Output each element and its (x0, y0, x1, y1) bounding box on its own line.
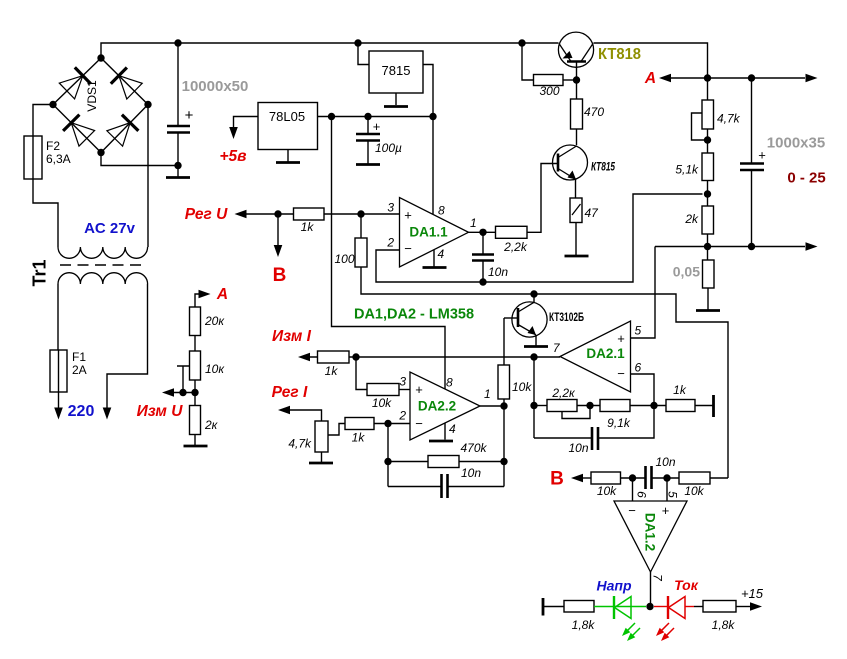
IC 78L05 box (258, 103, 318, 150)
diode VDS1 bottom-left (- bottom node to AC left node) (71, 123, 94, 146)
wire output column down (503, 406, 505, 487)
wire transformer primary left to fuse F1 (57, 284, 59, 350)
junction bridge right node (144, 101, 151, 108)
junction output column / R23 (500, 458, 507, 465)
svg-text:B: B (550, 469, 564, 490)
ground symbol DA1.1 pin 4 (423, 266, 447, 269)
svg-text:+: + (758, 148, 766, 163)
svg-text:Рег I: Рег I (272, 384, 308, 401)
resistor R18 2,2к (trimmer) (547, 400, 577, 412)
wire KT818 base junction to R3 470 (576, 80, 578, 99)
svg-text:+: + (415, 382, 423, 397)
junction bridge bottom node (97, 149, 104, 156)
svg-text:2: 2 (386, 236, 394, 250)
transformer Tr1 core (dashed) (60, 264, 146, 266)
wire DA2.2 pin 4 to ground (444, 423, 446, 440)
svg-text:9,1k: 9,1k (607, 416, 631, 430)
capacitor C4 1000x35 plates (740, 162, 764, 165)
svg-text:B: B (273, 265, 287, 286)
wire divider A tap (195, 294, 199, 307)
op-amp DA1.1 triangle (400, 198, 469, 268)
junction output column / R18 row (530, 402, 537, 409)
arrow node B (bottom) (571, 474, 583, 483)
svg-text:0,05: 0,05 (673, 264, 700, 280)
svg-text:Ток: Ток (674, 577, 699, 593)
svg-text:2,2к: 2,2к (551, 386, 576, 400)
wire DA1.1 output pin 1 (469, 231, 496, 233)
arrow +5v output (229, 127, 238, 139)
resistor R9 5,1k (vertical) (702, 153, 714, 181)
fuse F1 (50, 350, 67, 392)
svg-text:+15: +15 (741, 586, 764, 601)
wire +15 rail to capacitor C2 100u (367, 117, 369, 135)
wire top rail to capacitor C1 (177, 43, 179, 126)
junction minus rail / C4 bottom (748, 243, 755, 250)
svg-text:10k: 10k (684, 484, 704, 498)
svg-text:+: + (404, 208, 412, 223)
svg-text:КТ815: КТ815 (591, 160, 615, 174)
svg-text:DA1,DA2 - LM358: DA1,DA2 - LM358 (354, 307, 474, 323)
wire DA1.1 pin 8 supply (drawn above) (432, 117, 434, 215)
wire red segment (654, 606, 668, 608)
diode VDS1 top-left (AC left node to + top node) (59, 76, 83, 99)
wire LED row left (543, 606, 564, 608)
svg-text:47: 47 (585, 206, 600, 220)
wire DA1.1 pin 4 to ground (433, 250, 435, 267)
svg-text:DA1.1: DA1.1 (409, 225, 448, 240)
wiper of R8 trimmer (692, 113, 708, 140)
wire R17 to DA2.2 output node (503, 399, 505, 406)
wire R2 300 left column (522, 43, 534, 80)
svg-text:1k: 1k (673, 383, 687, 397)
junction +15 rail / op-amp supply drop (328, 113, 335, 120)
svg-text:+: + (662, 503, 670, 518)
svg-text:1k: 1k (301, 220, 315, 234)
arrow 220 line right (103, 408, 112, 420)
svg-text:5: 5 (635, 324, 642, 338)
junction LED common / DA1.2 output (646, 603, 653, 610)
terminator bar right of R20 (712, 395, 715, 417)
svg-text:Изм U: Изм U (137, 403, 184, 420)
junction R8 bottom / wiper (704, 136, 711, 143)
wire top rail from KT818 collector to node A drop (594, 43, 708, 78)
svg-text:F1: F1 (72, 350, 86, 364)
junction Рег U / node B drop (274, 210, 281, 217)
wire 7815 output to +15 rail (423, 65, 433, 117)
resistor R2 300 (534, 75, 564, 86)
arrow 220 line left (54, 408, 63, 420)
wire fuse F2 to transformer primary (33, 179, 58, 247)
wire 78L05 input rail to DA1.1 pin8 column (318, 116, 434, 118)
svg-text:F2: F2 (46, 139, 60, 153)
wiper of R18 trimmer (562, 406, 590, 419)
arrow +15 supply (750, 602, 762, 611)
transformer Tr1 primary winding (58, 273, 148, 284)
svg-text:10k: 10k (372, 396, 392, 410)
svg-text:+: + (185, 107, 194, 124)
wire divider top lead (707, 78, 709, 100)
svg-text:DA2.1: DA2.1 (586, 346, 625, 361)
capacitor C5 10n plates (591, 427, 594, 450)
wire minus output rail (655, 246, 805, 248)
resistor R21 4,7k (vertical, trimmed) (315, 421, 328, 452)
wire R9 to R10 (707, 181, 709, 207)
svg-text:4: 4 (449, 422, 456, 436)
resistor R6 100 (vertical) (355, 238, 367, 267)
wire R16 to DA2.2 pin 3 (399, 389, 410, 391)
resistor R5 1k (294, 208, 325, 220)
svg-text:0 - 25: 0 - 25 (787, 170, 825, 187)
svg-text:10k: 10k (597, 484, 617, 498)
resistor R20 1k (666, 400, 695, 412)
wire minus rail to DA2.1 pin 5 (631, 247, 656, 339)
wire DA1.2 output (650, 572, 652, 607)
svg-text:6: 6 (635, 361, 642, 375)
wiper of R21 trimmer (328, 424, 345, 436)
svg-text:+5в: +5в (219, 148, 246, 165)
wire R4 to ground (575, 223, 577, 256)
diode VDS1 bottom-right (- bottom node to AC right node) (107, 123, 130, 147)
wire R2 to KT818 base (563, 79, 577, 81)
wire DA1.1 pin 2 feedback loop (376, 194, 703, 282)
wire 7815 ground lead (395, 93, 397, 105)
wire DA2.2 output (480, 405, 504, 407)
svg-text:20к: 20к (204, 314, 225, 328)
wire Рег I to R21 (290, 410, 322, 421)
svg-text:1k: 1k (325, 364, 339, 378)
svg-text:4,7k: 4,7k (288, 437, 312, 451)
wire R25 to sense column (710, 477, 728, 479)
wire R14 to ground (194, 435, 196, 446)
transistor Q1 KT818 (PNP) (558, 32, 593, 67)
svg-text:2к: 2к (204, 418, 219, 432)
capacitor C1 10000x50 plates (167, 125, 190, 128)
svg-text:78L05: 78L05 (269, 109, 305, 124)
wire R7 to KT815 base (527, 164, 558, 233)
ground symbol KT3102 emitter (524, 345, 548, 348)
resistor R8 4,7k (vertical, trimmed) (702, 100, 714, 129)
svg-text:7815: 7815 (382, 63, 411, 78)
diode bridge VDS1 rhombus wires (53, 58, 148, 153)
svg-text:VDS1: VDS1 (85, 80, 99, 112)
fuse F2 (24, 136, 42, 179)
junction collector / sense net (530, 290, 537, 297)
wire R3 to KT815 collector (576, 129, 578, 145)
wire C1 to ground node (177, 133, 179, 166)
junction DA2.2 output node (500, 402, 507, 409)
wire Изм I row to DA2.1 pin 7 (310, 356, 560, 358)
wire R21 to ground (321, 452, 323, 462)
resistor R7 2,2k (496, 226, 528, 238)
arrow Рег U (235, 210, 247, 219)
ground symbol DA2.2 pin 4 (429, 440, 453, 443)
wire node A row (671, 77, 805, 79)
wire base column to R17 (503, 318, 505, 365)
resistor R23 470k (428, 456, 459, 468)
arrow + output terminal (806, 74, 818, 83)
svg-text:Напр: Напр (597, 578, 632, 594)
junction bridge left node (49, 101, 56, 108)
svg-text:−: − (628, 503, 636, 518)
svg-text:A: A (644, 70, 656, 87)
svg-text:6: 6 (635, 491, 649, 498)
svg-text:10n: 10n (488, 265, 508, 279)
svg-text:10k: 10k (512, 380, 532, 394)
ground symbol below R4 (565, 255, 589, 258)
wire C2 to ground (367, 141, 369, 164)
junction pin 6 node (629, 474, 636, 481)
junction top rail / C1 (174, 39, 181, 46)
capacitor C4 1000x35 leads (751, 78, 753, 247)
wire R24 to pin6 node (621, 477, 646, 479)
wire R22 to DA2.2 pin 2 (374, 423, 410, 425)
svg-text:100µ: 100µ (375, 141, 402, 155)
diode VDS1 top-right (AC right node to + top node) (119, 76, 142, 99)
capacitor C5 10n (DA2.1 feedback) wires (534, 406, 654, 439)
resistor R12 20к (vertical) (190, 307, 201, 336)
junction DA1.1 pin3 / R6 100 (357, 210, 364, 217)
svg-text:AC 27v: AC 27v (84, 220, 136, 237)
resistor R15 1k (318, 351, 350, 363)
wire top rail to 7815 input (358, 43, 369, 65)
svg-text:6,3A: 6,3A (46, 152, 71, 166)
resistor R26 1,8k (564, 601, 594, 613)
junction KT818 base / R2 / R3 (573, 76, 580, 83)
svg-text:DA1.2: DA1.2 (643, 513, 658, 551)
resistor R19 9,1k (600, 400, 630, 412)
junction bridge top node (97, 54, 104, 61)
svg-text:Рег U: Рег U (185, 206, 228, 223)
IC 7815 box (369, 51, 423, 93)
wire B row left (583, 477, 591, 479)
wire 78L05 ground lead (287, 150, 289, 162)
junction top rail / 7815 (354, 39, 361, 46)
transformer Tr1 secondary winding (AC 27v) (58, 247, 148, 258)
svg-text:КТ818: КТ818 (598, 46, 641, 63)
wire op-amp supply +5 column down to DA2.2 pin 8 (332, 117, 446, 390)
capacitor C7 10n plates (644, 466, 647, 489)
svg-text:−: − (404, 241, 412, 256)
ground symbol below C1 (166, 176, 190, 179)
svg-text:5: 5 (666, 491, 680, 498)
wire feedback column down (387, 424, 389, 487)
svg-text:1000x35: 1000x35 (767, 135, 825, 152)
ground symbol below C2 (356, 163, 380, 166)
svg-text:300: 300 (539, 84, 559, 98)
resistor R14 2к (vertical) (190, 406, 201, 435)
svg-text:Изм I: Изм I (272, 328, 312, 345)
junction R18/R19 row (586, 402, 593, 409)
ground symbol below R11 (696, 309, 720, 312)
svg-text:4,7k: 4,7k (717, 112, 741, 126)
junction feedback column / R23 (384, 458, 391, 465)
svg-text:КТ3102Б: КТ3102Б (549, 312, 584, 324)
ground symbol below 78L05 (276, 161, 300, 164)
svg-text:10n: 10n (461, 466, 481, 480)
resistor R3 470 (vertical) (571, 99, 583, 129)
svg-text:2A: 2A (72, 363, 87, 377)
svg-text:2: 2 (398, 409, 406, 423)
junction +15 rail corner / DA1.1 pin 8 (429, 113, 436, 120)
arrow Изм I (298, 353, 310, 362)
svg-text:−: − (617, 366, 625, 381)
wire R19 to R20 (630, 405, 666, 407)
arrow node A output (659, 74, 671, 83)
wire bridge left node to fuse F2 (33, 105, 53, 137)
wire node B drop (277, 214, 279, 247)
wire to R16 10k (356, 357, 367, 390)
wire R18 to R19 (577, 405, 600, 407)
resistor R13 10к (vertical, trimmed) (190, 351, 201, 380)
capacitor C6 10n plates (440, 474, 443, 498)
emission arrows VD2 (659, 623, 669, 633)
svg-text:+: + (373, 119, 381, 134)
wire R6 100 top lead (360, 214, 362, 238)
capacitor C6 10n wires (388, 486, 504, 488)
svg-text:+: + (617, 331, 625, 346)
svg-text:470k: 470k (460, 441, 487, 455)
wire KT3102 collector (533, 294, 535, 302)
wire ground stub (177, 166, 179, 177)
svg-text:1,8k: 1,8k (572, 618, 596, 632)
wire R13 bottom to R14 (194, 380, 196, 406)
svg-text:10n: 10n (568, 441, 588, 455)
capacitor C3 10n plates (472, 253, 494, 256)
capacitor C2 100u plates (356, 133, 380, 136)
arrow Изм U (162, 388, 174, 397)
wire R6 bottom to current-sense net (361, 267, 728, 478)
resistor R16 10k (367, 384, 399, 396)
junction minus rail / R11 (704, 243, 711, 250)
svg-text:4: 4 (438, 247, 445, 261)
svg-text:2,2k: 2,2k (503, 240, 528, 254)
resistor R27 1,8k (703, 601, 736, 613)
wire R23 row (388, 461, 504, 463)
resistor R22 1k (345, 418, 374, 430)
junction wiper / Изм U (179, 389, 186, 396)
wire KT3102 base (504, 317, 518, 319)
resistor R11 0,05 shunt (vertical) (703, 260, 715, 288)
svg-text:1: 1 (470, 216, 477, 230)
emission arrows VD1 (625, 623, 635, 633)
svg-text:Tr1: Tr1 (30, 259, 50, 286)
op-amp DA2.2 triangle (410, 372, 480, 440)
svg-text:1k: 1k (352, 431, 366, 445)
wire DA1.2 pin 6 drop (632, 478, 634, 501)
svg-text:470: 470 (584, 105, 604, 119)
LED VD2 red (Ток) (667, 596, 669, 619)
wire C3 leads (482, 232, 484, 282)
junction A row / divider column (704, 74, 711, 81)
junction +15 rail / C2 (364, 113, 371, 120)
wire R10 to minus rail (707, 234, 709, 260)
junction R9/R10 feedback tap (704, 190, 711, 197)
wire Изм U tap (168, 392, 195, 394)
svg-text:1: 1 (484, 387, 491, 401)
wire R20 to terminator (695, 405, 713, 407)
wire R27 to +15 (736, 606, 752, 608)
wire R11 to ground (707, 288, 709, 310)
ground symbol below R14 (184, 445, 208, 448)
wire transformer primary right to 220 line (107, 284, 148, 411)
junction pin1 / C3 10n (479, 229, 486, 236)
svg-text:8: 8 (438, 204, 445, 218)
svg-text:A: A (216, 286, 228, 303)
svg-text:10000x50: 10000x50 (182, 78, 249, 95)
wire bridge bottom node to filter cap ground node (101, 153, 178, 166)
resistor R10 2k (vertical) (702, 206, 714, 234)
wire green segment (594, 606, 646, 608)
junction pin6 node (650, 402, 657, 409)
junction top rail / R2 300 drop (518, 39, 525, 46)
svg-text:3: 3 (387, 201, 394, 215)
resistor R4 47 (vertical with slash) (570, 198, 582, 223)
op-amp DA1.2 triangle (output down) (614, 501, 687, 572)
wire DA2.1 pin 6 (631, 374, 655, 406)
resistor R24 10k (591, 472, 621, 484)
arrow to node A (divider) (199, 290, 211, 299)
svg-text:100: 100 (334, 252, 354, 266)
wire 78L05 output left to +5v arrow (234, 117, 259, 129)
wire fuse F1 to 220 line (58, 392, 60, 411)
terminator bar LED row left (542, 598, 545, 616)
svg-text:8: 8 (446, 376, 453, 390)
svg-text:1,8k: 1,8k (712, 618, 736, 632)
svg-text:5,1k: 5,1k (675, 163, 699, 177)
svg-text:−: − (415, 416, 423, 431)
junction feedback / C3 (479, 278, 486, 285)
wire DA2.1 output column (533, 357, 535, 438)
junction C1 ground node (174, 162, 181, 169)
svg-text:2k: 2k (684, 212, 699, 226)
wire top rail from bridge to 7815 tap (101, 43, 559, 58)
LED VD1 green (Напр) (613, 596, 615, 619)
arrow - output terminal (806, 242, 818, 251)
junction divider mid (191, 389, 198, 396)
resistor R25 10k (679, 472, 710, 484)
ground symbol below R21 (309, 462, 333, 465)
svg-text:10n: 10n (655, 455, 675, 469)
wire DA1.2 pin 5 drop (666, 478, 668, 501)
op-amp DA2.1 triangle (output left) (560, 321, 631, 392)
transistor Q2 KT815 (NPN) (553, 145, 588, 180)
svg-text:DA2.2: DA2.2 (418, 399, 456, 414)
wire R12 to R13 (194, 336, 196, 352)
wire KT3102 emitter to ground (535, 335, 537, 346)
wire KT815 emitter to R4 47 (575, 179, 577, 198)
junction pin 2 / feedback (384, 420, 391, 427)
junction Изм I row / DA2.1 feedback (530, 353, 537, 360)
junction Изм I / DA2.2 pin3 branch (352, 353, 359, 360)
wire bridge right node to transformer winding right (147, 105, 149, 248)
svg-text:3: 3 (399, 375, 406, 389)
wire R18 left lead (534, 405, 547, 407)
arrow Рег I (278, 406, 290, 415)
ground symbol below 7815 (384, 105, 408, 108)
wiper of R13 trimmer (177, 366, 190, 393)
wire to R27 (694, 606, 703, 608)
svg-text:10к: 10к (205, 362, 225, 376)
junction pin 5 node (663, 474, 670, 481)
svg-text:220: 220 (68, 403, 95, 420)
transistor Q3 KT3102Б (NPN) (512, 302, 547, 337)
arrow node B (274, 245, 283, 257)
wire Рег U row to DA1.1 pin 3 (246, 213, 400, 215)
wire C7 to pin5 node (652, 477, 680, 479)
resistor R17 10k (vertical) (498, 365, 510, 399)
wire R8 bottom (707, 129, 709, 153)
junction A row / C4 (748, 74, 755, 81)
